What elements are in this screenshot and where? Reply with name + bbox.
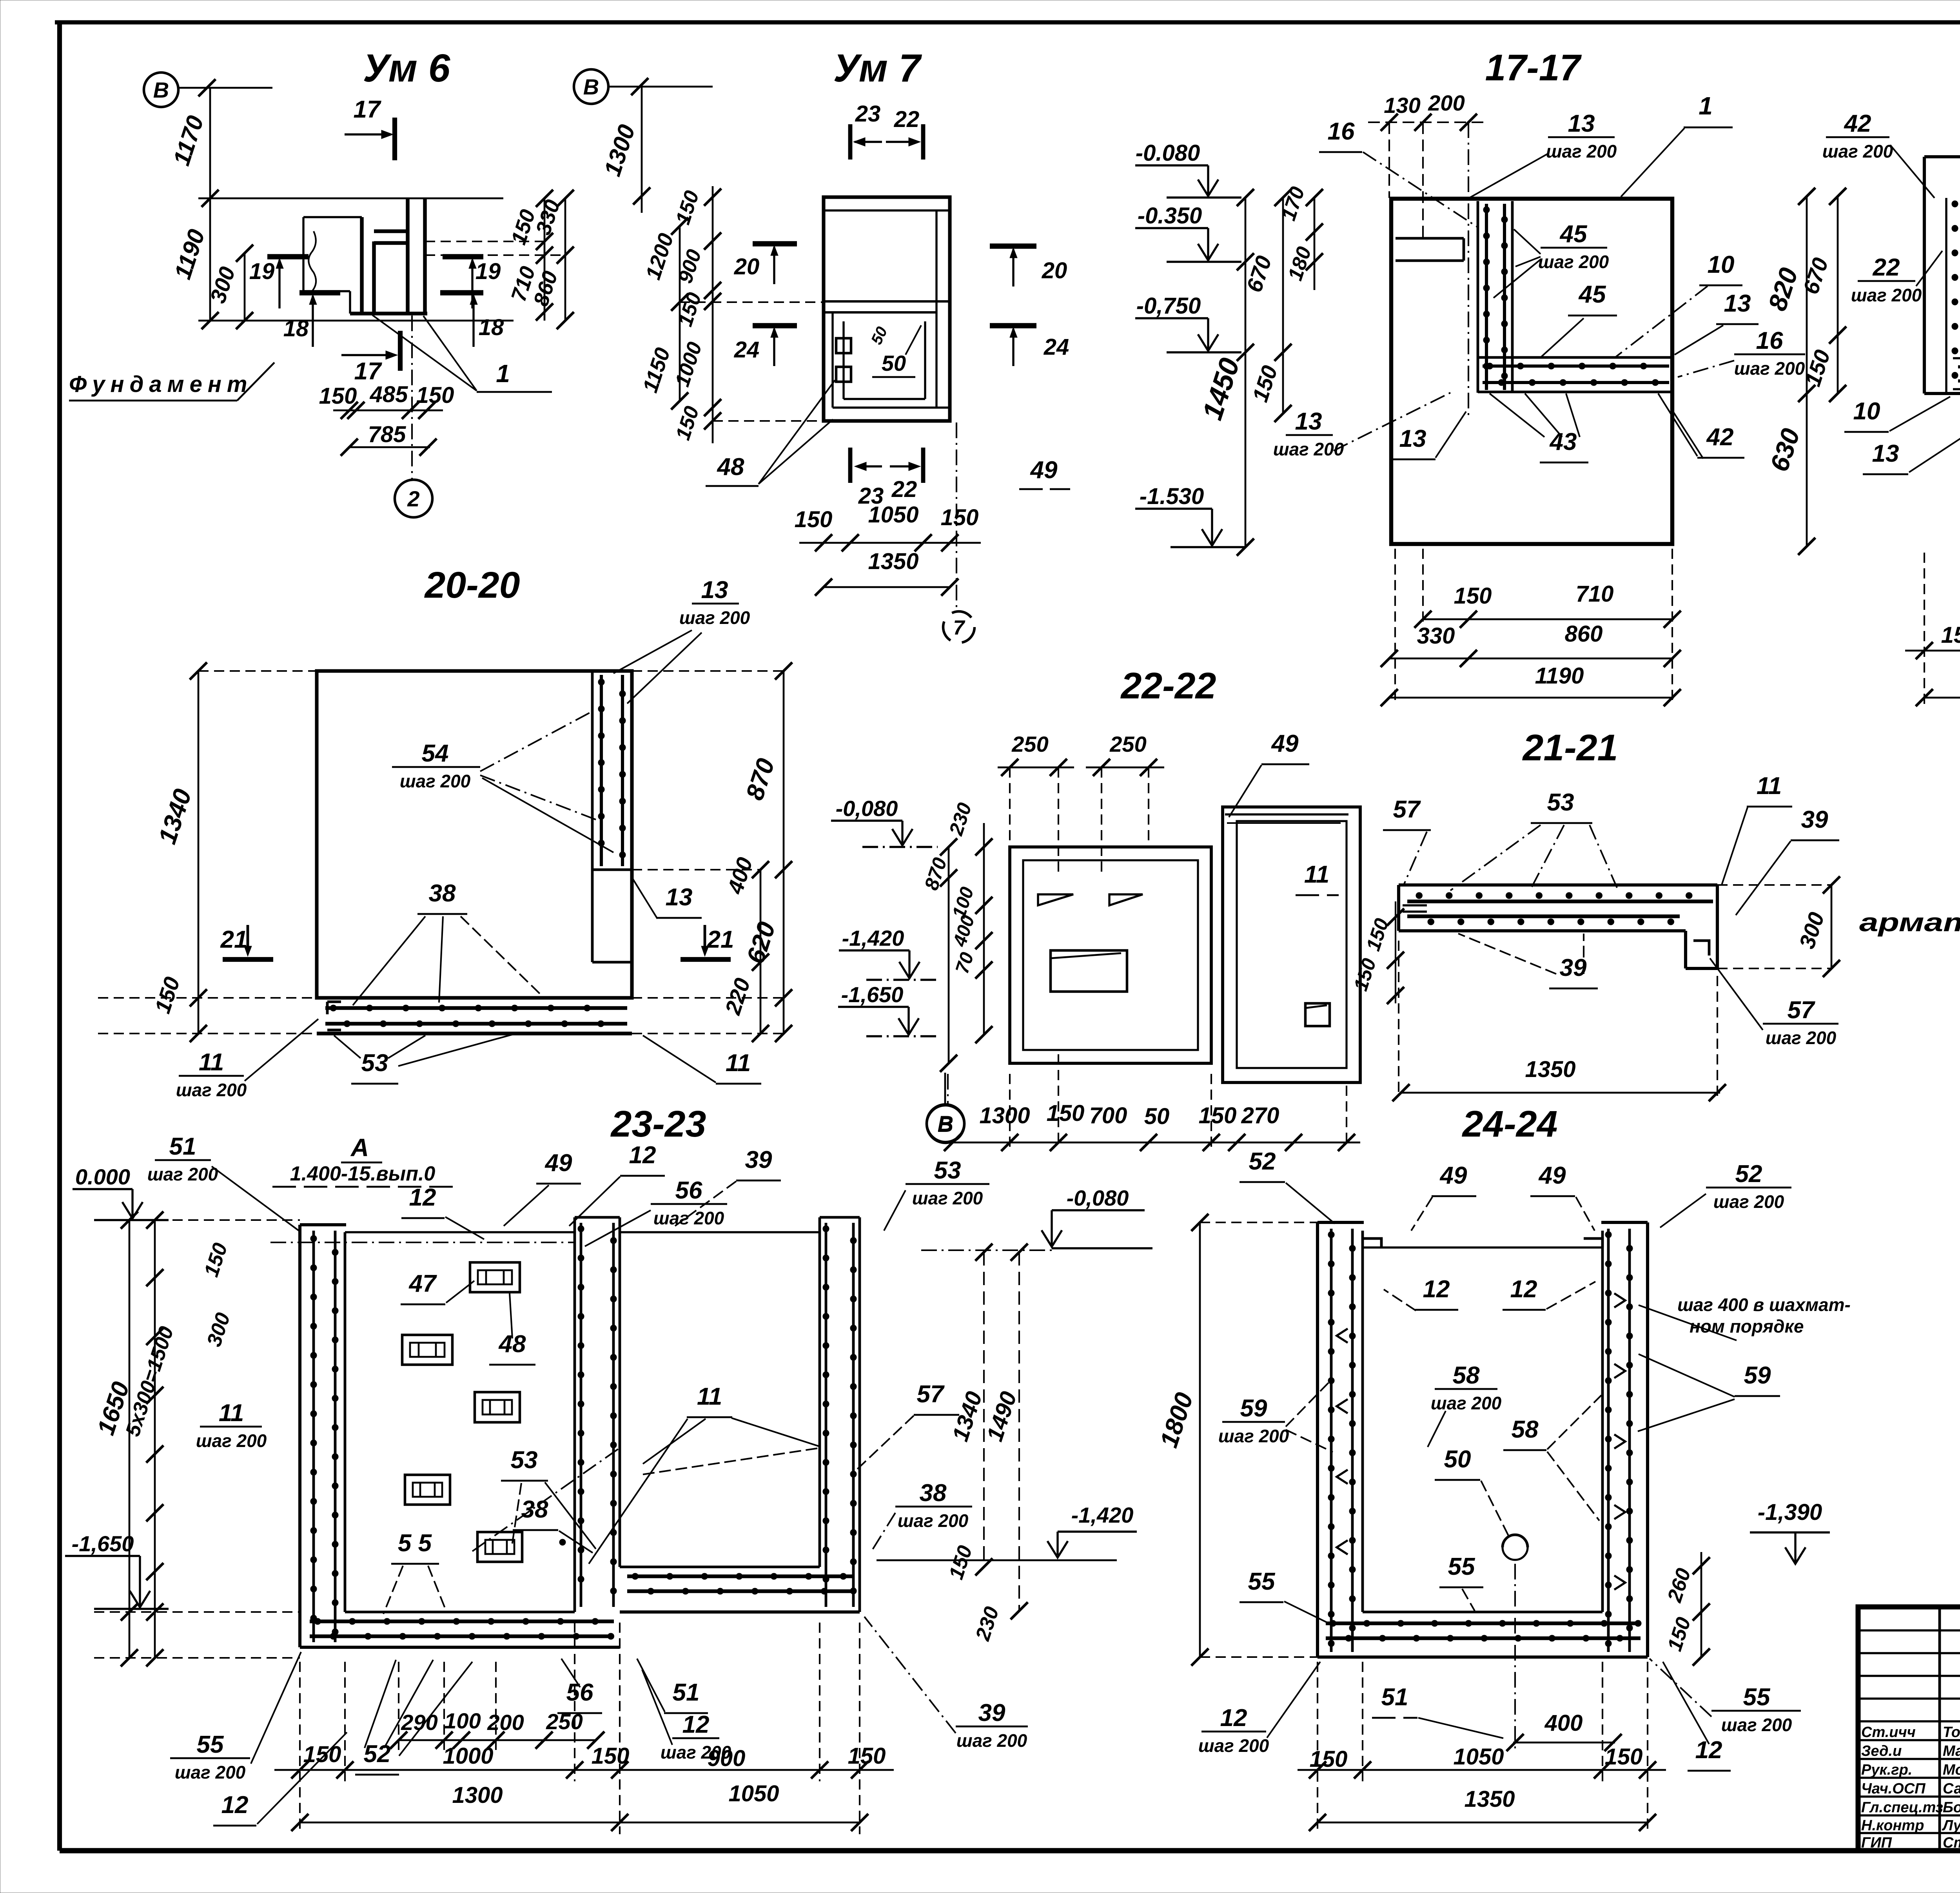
23-23 left wall outline [298, 1225, 301, 1647]
section cut marks 23 22 bottom of Ум7 [848, 448, 853, 483]
svg-text:шаг 200: шаг 200 [1734, 358, 1805, 379]
svg-text:шаг 200: шаг 200 [1546, 141, 1617, 161]
svg-text:150: 150 [795, 507, 833, 532]
svg-text:12: 12 [629, 1142, 656, 1169]
svg-text:22-22: 22-22 [1120, 665, 1216, 707]
svg-text:12: 12 [1695, 1737, 1722, 1764]
svg-text:22: 22 [1873, 254, 1900, 281]
svg-text:700: 700 [1089, 1103, 1127, 1128]
svg-text:52: 52 [1249, 1148, 1276, 1175]
23-23 pit1 floor [300, 1646, 620, 1649]
svg-text:1050: 1050 [728, 1781, 779, 1806]
17-17 horizontal reinforced band boundaries [1478, 356, 1672, 359]
18-18 bottom dim row 785 [1924, 697, 1960, 699]
24-24 right dims 260 150 [1700, 1552, 1702, 1657]
svg-text:49: 49 [544, 1150, 572, 1177]
title block outer rect [1858, 1607, 1960, 1851]
axis circle B of 22-22 [947, 1074, 949, 1104]
Ум7 inner wall U shape [831, 312, 833, 408]
svg-text:20: 20 [1042, 258, 1067, 283]
svg-text:24: 24 [1044, 334, 1069, 360]
svg-text:шаг 200: шаг 200 [679, 607, 750, 628]
svg-text:0.000: 0.000 [75, 1164, 130, 1189]
svg-text:48: 48 [717, 453, 744, 481]
svg-text:49: 49 [1439, 1162, 1467, 1189]
svg-text:56: 56 [675, 1177, 702, 1204]
svg-text:130: 130 [1384, 93, 1420, 118]
svg-text:Ум 7: Ум 7 [833, 46, 922, 90]
rebar bar 19 right [443, 254, 483, 259]
21-21 slab left hooks [1403, 904, 1427, 906]
svg-text:23: 23 [855, 101, 881, 127]
22-22 left box rebar angles [1038, 894, 1073, 905]
svg-text:Сальвяни: Сальвяни [1943, 1781, 1960, 1797]
svg-text:11: 11 [199, 1049, 224, 1076]
vertical dim line Ум6 left [209, 88, 211, 321]
svg-text:150: 150 [941, 505, 979, 530]
svg-text:16: 16 [1756, 327, 1783, 354]
24-24 bottom extension dashes [1317, 1662, 1318, 1834]
svg-text:шаг 200: шаг 200 [400, 771, 471, 791]
17-17 horizontal rebar chains with dots [1483, 364, 1669, 368]
23-23 right dims 1340 1490 [983, 1252, 985, 1567]
svg-text:шаг 200: шаг 200 [912, 1188, 983, 1208]
22-22 left box inner [1023, 860, 1198, 1050]
svg-text:12: 12 [1423, 1276, 1450, 1303]
svg-text:Сташевс: Сташевс [1943, 1835, 1960, 1851]
svg-text:53: 53 [511, 1447, 538, 1474]
22-22 right box anchor square [1305, 1003, 1330, 1026]
svg-text:ГИП: ГИП [1861, 1835, 1892, 1851]
axis circle B above 23-23 [944, 1073, 946, 1104]
Ум6 concrete slab between walls [374, 229, 408, 233]
24-24 left dim 1800 [1199, 1222, 1201, 1657]
svg-text:150: 150 [319, 383, 357, 409]
title block signature table columns [1938, 1607, 1941, 1851]
svg-text:-0.080: -0.080 [1136, 140, 1200, 166]
svg-text:1000: 1000 [443, 1743, 493, 1769]
svg-text:12: 12 [682, 1711, 710, 1738]
17-17 main vertical dim line 1450 [1245, 198, 1247, 547]
svg-text:150: 150 [1454, 583, 1492, 609]
svg-text:1190: 1190 [1535, 663, 1584, 689]
svg-text:1.400-15.вып.0: 1.400-15.вып.0 [290, 1162, 436, 1185]
rebar bar 19 left [267, 254, 309, 259]
svg-text:55: 55 [197, 1731, 224, 1758]
svg-text:Рук.гр.: Рук.гр. [1861, 1762, 1912, 1778]
svg-text:шаг 200: шаг 200 [956, 1730, 1027, 1751]
svg-text:-1,650: -1,650 [841, 982, 904, 1007]
svg-text:900: 900 [708, 1746, 746, 1771]
svg-text:1: 1 [496, 359, 510, 388]
svg-text:57: 57 [1393, 796, 1421, 823]
drawing border frame bottom [60, 1848, 1960, 1853]
svg-text:100: 100 [444, 1708, 481, 1733]
svg-text:49: 49 [1538, 1162, 1566, 1189]
svg-text:400: 400 [1544, 1710, 1583, 1736]
svg-text:150: 150 [1605, 1744, 1643, 1770]
svg-text:13: 13 [1399, 425, 1426, 452]
24-24 left wall outline [1316, 1222, 1319, 1657]
svg-text:17: 17 [354, 96, 381, 123]
svg-text:1300: 1300 [452, 1782, 503, 1808]
svg-text:1350: 1350 [868, 549, 918, 574]
20-20 big wall outline [317, 671, 632, 998]
17-17 vertical reinforced strip boundaries [1477, 201, 1479, 393]
svg-text:57: 57 [1788, 997, 1815, 1024]
rebar mark 20 right Ум7 [990, 243, 1036, 249]
22-22 bottom extension dashes [1009, 1074, 1011, 1148]
svg-text:А: А [350, 1133, 369, 1162]
svg-text:59: 59 [1240, 1395, 1267, 1422]
title block signature table rows upper [1858, 1629, 1960, 1631]
Ум6 concrete section outline right wall [406, 198, 410, 312]
svg-text:шаг 200: шаг 200 [1538, 252, 1609, 272]
23-23 anchor plate 5 [477, 1532, 522, 1562]
svg-text:шаг 200: шаг 200 [1713, 1191, 1784, 1212]
svg-text:шаг 400 в шахмат-: шаг 400 в шахмат- [1677, 1295, 1851, 1315]
20-20 right reinforced strip [591, 671, 594, 870]
svg-text:47: 47 [408, 1270, 437, 1297]
svg-text:Чач.ОСП: Чач.ОСП [1861, 1781, 1926, 1797]
23-23 anchor plate 1 [470, 1262, 520, 1292]
svg-text:1050: 1050 [868, 502, 918, 528]
svg-text:21-21: 21-21 [1522, 727, 1618, 769]
24-24 bottom dim row 1350 [1318, 1822, 1648, 1824]
svg-text:59: 59 [1744, 1362, 1771, 1389]
svg-text:13: 13 [1872, 440, 1899, 467]
svg-text:-1,420: -1,420 [1071, 1503, 1134, 1527]
axis circle B of Ум7 [574, 69, 608, 104]
svg-text:19: 19 [249, 259, 275, 284]
svg-text:57: 57 [917, 1381, 945, 1408]
18-18 bottom dim row 150 485 150 [1905, 650, 1960, 652]
23-23 anchor plate 4 [405, 1475, 450, 1505]
Ум7 left outer dim line [679, 226, 681, 401]
24-24 floor rebar [1326, 1621, 1641, 1625]
svg-text:50: 50 [1144, 1104, 1170, 1129]
drawing border frame left [57, 22, 62, 1851]
18-18 left wall reinforcement [1945, 198, 1947, 392]
21-21 step hook detail [1693, 941, 1709, 956]
18-18 bottom slab rebar [1958, 365, 1960, 368]
svg-text:45: 45 [1559, 221, 1588, 248]
24-24 floor [1318, 1655, 1648, 1659]
svg-text:39: 39 [745, 1146, 772, 1173]
Ум7 anchor square 1 [836, 338, 851, 353]
20-20 dim extension dashes [198, 670, 317, 672]
18-18 left dim line 820 630 [1806, 196, 1808, 546]
svg-text:шаг 200: шаг 200 [1218, 1426, 1289, 1446]
svg-text:24-24: 24-24 [1462, 1103, 1558, 1145]
23-23 bottom extension dashes [299, 1662, 301, 1834]
svg-text:-1,650: -1,650 [72, 1531, 134, 1556]
axis line from circle B [178, 87, 272, 89]
svg-text:Гл.спец.тз: Гл.спец.тз [1861, 1799, 1943, 1816]
svg-text:Фундамент: Фундамент [69, 372, 252, 397]
svg-text:шаг 200: шаг 200 [175, 1762, 246, 1782]
svg-text:12: 12 [1220, 1704, 1247, 1732]
svg-text:21: 21 [707, 926, 734, 953]
svg-text:шаг 200: шаг 200 [653, 1208, 724, 1228]
svg-text:12: 12 [221, 1791, 249, 1819]
svg-text:Ум 6: Ум 6 [363, 46, 451, 90]
Ум7 plan outer outline [824, 197, 950, 421]
svg-text:250: 250 [1011, 732, 1048, 756]
svg-text:785: 785 [368, 422, 407, 447]
svg-text:арматуры равен 25мм.: арматуры равен 25мм. [1859, 908, 1960, 937]
18-18 bottom extension dashes [1924, 553, 1925, 705]
svg-text:56: 56 [566, 1679, 593, 1706]
svg-text:150: 150 [1047, 1101, 1085, 1126]
svg-text:шаг 200: шаг 200 [176, 1080, 247, 1100]
23-23 anchor plate 3 [475, 1392, 520, 1422]
24-24 bottom dim row 150 1050 150 [1298, 1769, 1666, 1771]
23-23 pit2 floor [620, 1610, 860, 1614]
svg-text:11: 11 [1304, 861, 1329, 888]
svg-text:58: 58 [1512, 1416, 1539, 1443]
svg-text:710: 710 [1576, 581, 1614, 607]
22-22 left box outer [1010, 847, 1211, 1063]
17-17 bottom dim row 1190 [1389, 697, 1674, 699]
svg-text:шаг 200: шаг 200 [1273, 439, 1344, 459]
23-23 pit1 floor rebar [310, 1619, 614, 1623]
18-18 left wall outline [1923, 157, 1926, 393]
svg-text:250: 250 [1109, 732, 1146, 756]
svg-text:10: 10 [1853, 398, 1880, 425]
Ум6 foundation break squiggle [309, 231, 316, 291]
svg-text:2: 2 [407, 486, 419, 511]
24-24 staggered hook marks right wall [1614, 1293, 1625, 1307]
svg-text:150: 150 [303, 1742, 341, 1767]
svg-text:150: 150 [1199, 1103, 1237, 1128]
24-24 staggered hook marks left wall [1337, 1329, 1348, 1343]
21-21 slab rebar top chain [1407, 899, 1713, 903]
svg-text:1300: 1300 [979, 1103, 1030, 1128]
Ум7 plan inner bottom line [833, 406, 950, 408]
svg-text:В: В [583, 74, 599, 99]
20-20 slab left hooks [327, 1001, 341, 1003]
svg-text:21: 21 [220, 926, 248, 953]
svg-text:шаг 200: шаг 200 [1822, 141, 1893, 161]
svg-text:Ст.ичч: Ст.ичч [1861, 1724, 1916, 1741]
22-22 right box top plate [1225, 813, 1348, 815]
Ум6 section bottom line [350, 312, 427, 315]
Ум6 concrete left wall [360, 217, 364, 314]
axis circle B of Ум6 [144, 73, 178, 107]
svg-text:ном порядке: ном порядке [1690, 1316, 1804, 1336]
svg-text:50: 50 [882, 351, 906, 375]
svg-text:18: 18 [479, 315, 504, 340]
Ум7 anchor square 2 [836, 367, 851, 382]
svg-text:200: 200 [487, 1710, 524, 1735]
left dim extension dashes 23-23 [94, 1219, 300, 1221]
svg-text:шаг 200: шаг 200 [1851, 285, 1922, 305]
svg-text:20: 20 [734, 254, 760, 279]
svg-text:24: 24 [734, 337, 760, 363]
23-23 pit2 interior top line [620, 1231, 820, 1233]
svg-text:19: 19 [475, 259, 501, 284]
svg-text:10: 10 [1708, 251, 1735, 278]
svg-text:7: 7 [953, 616, 965, 639]
svg-text:250: 250 [546, 1709, 583, 1734]
20-20 slab rebar [325, 1006, 627, 1010]
svg-text:22: 22 [894, 107, 920, 132]
svg-text:11: 11 [697, 1383, 722, 1410]
svg-text:-0.350: -0.350 [1138, 203, 1202, 228]
svg-text:55: 55 [1448, 1553, 1475, 1580]
Ум7 plan divider double line [824, 300, 950, 303]
svg-text:150: 150 [1941, 622, 1960, 648]
Ум6 bottom reference line [198, 320, 514, 322]
svg-text:Зед.и: Зед.и [1861, 1743, 1902, 1759]
17-17 mini dims 170 180 [1314, 198, 1316, 290]
drawing border frame top [55, 20, 1960, 25]
23-23 right wall rebar chains [825, 1223, 828, 1607]
svg-text:150: 150 [416, 383, 454, 408]
svg-text:шаг 200: шаг 200 [147, 1164, 218, 1184]
svg-text:150: 150 [848, 1743, 886, 1769]
svg-text:39: 39 [1560, 954, 1587, 981]
svg-text:Макарова: Макарова [1943, 1743, 1960, 1759]
svg-text:5 5: 5 5 [398, 1530, 432, 1557]
svg-text:200: 200 [1428, 91, 1465, 115]
24-24 right wall rebar chains [1607, 1229, 1610, 1652]
20-20 bottom slab [317, 1032, 632, 1035]
svg-text:12: 12 [1510, 1276, 1537, 1303]
svg-text:51: 51 [169, 1133, 196, 1160]
svg-text:11: 11 [1757, 772, 1782, 800]
rebar bar 18 right [440, 290, 483, 296]
svg-text:53: 53 [934, 1157, 961, 1184]
axis line from circle B Ум7 [608, 86, 713, 88]
svg-text:13: 13 [701, 577, 728, 604]
svg-text:1050: 1050 [1453, 1744, 1504, 1770]
svg-text:150: 150 [1310, 1746, 1348, 1772]
svg-text:11: 11 [726, 1050, 751, 1077]
svg-text:22: 22 [891, 477, 917, 502]
17-17 vertical rebar chains with dots [1485, 204, 1488, 390]
svg-text:шаг 200: шаг 200 [1721, 1715, 1792, 1735]
svg-text:17: 17 [354, 358, 382, 385]
17-17 corbel notch [1396, 237, 1464, 240]
23-23 mid wall outline [573, 1217, 576, 1612]
23-23 right wall outline [818, 1217, 821, 1567]
22-22 right box outer [1223, 807, 1360, 1082]
svg-text:50: 50 [1444, 1446, 1471, 1473]
leader to label 1 [372, 315, 477, 391]
svg-text:53: 53 [1547, 789, 1574, 816]
23-23 mid wall rebar chains [580, 1223, 583, 1607]
svg-text:-0,080: -0,080 [836, 796, 898, 821]
svg-text:49: 49 [1271, 730, 1299, 757]
dim 300 small [244, 253, 246, 321]
axis circle 2 of Ум6 [411, 315, 413, 479]
rebar mark 20 left Ум7 [753, 241, 797, 247]
svg-text:150: 150 [592, 1743, 630, 1769]
23-23 bottom dim row 1300 1050 [300, 1822, 860, 1824]
rebar mark 24 left Ум7 [753, 323, 797, 328]
23-23 pit1 interior top line [345, 1231, 575, 1233]
svg-text:Луценко: Луценко [1942, 1817, 1960, 1834]
20-20 right strip rebar chains [600, 675, 603, 866]
23-23 pit2 floor rebar [627, 1574, 855, 1578]
24-24 interior top line with plates [1363, 1246, 1602, 1248]
18-18 dim line 670 150 [1837, 196, 1839, 393]
svg-text:13: 13 [1295, 408, 1322, 435]
svg-text:18: 18 [283, 316, 309, 341]
rebar bar 18 left [299, 290, 340, 296]
21-21 right dim 300 [1831, 885, 1833, 968]
svg-text:13: 13 [1568, 110, 1595, 137]
svg-text:1: 1 [1699, 92, 1713, 120]
svg-text:12: 12 [409, 1184, 436, 1211]
21-21 slab outline [1399, 883, 1717, 887]
Ум6 right dim extension dashes [425, 241, 544, 242]
Ум6 right outer dim line [564, 198, 566, 321]
17-17 bottom dim row 150 710 [1423, 618, 1674, 620]
svg-text:43: 43 [1549, 428, 1577, 455]
svg-text:В: В [153, 78, 169, 102]
svg-text:51: 51 [673, 1679, 700, 1706]
svg-text:11: 11 [219, 1400, 244, 1427]
svg-text:Моргунов: Моргунов [1943, 1762, 1960, 1778]
23-23 left dim lines [154, 1220, 156, 1658]
17-17 wall outline [1391, 199, 1672, 544]
svg-text:58: 58 [1453, 1362, 1480, 1389]
svg-text:шаг 200: шаг 200 [898, 1510, 969, 1531]
svg-text:Боярченко: Боярченко [1943, 1799, 1960, 1816]
svg-text:Н.контр: Н.контр [1861, 1817, 1924, 1834]
svg-text:39: 39 [978, 1699, 1005, 1726]
Ум7 left inner dim line [712, 186, 714, 443]
20-20 right dim line [783, 671, 785, 1034]
svg-text:1350: 1350 [1525, 1057, 1575, 1082]
svg-text:1350: 1350 [1464, 1786, 1515, 1812]
svg-text:45: 45 [1578, 281, 1606, 308]
svg-text:38: 38 [920, 1480, 947, 1507]
24-24 drain circle detail [1503, 1535, 1528, 1560]
23-23 anchor plate 2 [402, 1335, 452, 1365]
20-20 right wall inner line below strip [591, 870, 594, 962]
svg-text:42: 42 [1706, 424, 1734, 451]
svg-text:-0,080: -0,080 [1067, 1186, 1129, 1210]
svg-text:23-23: 23-23 [610, 1103, 706, 1145]
svg-text:51: 51 [1381, 1684, 1408, 1711]
23-23 bottom dim row 150 1000 150 900 150 [274, 1769, 894, 1771]
svg-text:330: 330 [1417, 623, 1455, 649]
svg-text:20-20: 20-20 [424, 564, 520, 606]
17-17 bottom extension dashes [1394, 549, 1396, 705]
rebar mark 24 right Ум7 [990, 323, 1036, 328]
Ум6 top reference dim line [198, 198, 503, 199]
svg-text:485: 485 [370, 382, 408, 407]
Ум6 right inner dim line [544, 198, 546, 321]
22-22 left rotated dims [948, 847, 950, 1063]
23-23 left wall rebar chains [312, 1231, 315, 1642]
svg-text:13: 13 [1724, 290, 1751, 317]
svg-text:270: 270 [1241, 1103, 1279, 1128]
24-24 left wall rebar chains [1330, 1229, 1333, 1652]
Ум6 foundation outline thin [303, 216, 362, 218]
svg-text:54: 54 [422, 740, 449, 767]
Ум7 plan inner right line [935, 210, 937, 408]
21-21 slab rebar bottom chain [1407, 914, 1680, 918]
axis circle 7 of Ум7 [956, 422, 957, 610]
17-17 bottom dim row 330 860 [1389, 658, 1674, 660]
svg-text:860: 860 [1565, 621, 1603, 647]
svg-text:-1.530: -1.530 [1140, 484, 1204, 509]
